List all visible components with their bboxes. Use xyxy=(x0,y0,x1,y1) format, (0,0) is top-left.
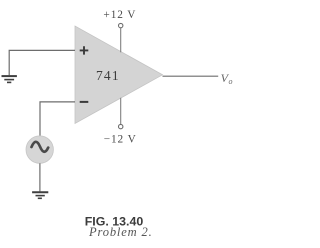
svg-text:741: 741 xyxy=(96,68,120,83)
svg-text:+12 V: +12 V xyxy=(103,9,136,21)
wire: output from apex to Vo node xyxy=(163,75,219,77)
op-amp noninverting input pin label + xyxy=(80,46,89,54)
wire: source to bottom ground xyxy=(39,163,41,191)
wire: op-amp bottom edge to −12 V terminal xyxy=(120,98,122,124)
sine symbol inside source xyxy=(32,142,49,152)
wire: noninverting input to left ground xyxy=(9,50,75,75)
svg-text:−12 V: −12 V xyxy=(104,133,137,145)
op-amp inverting input pin label − xyxy=(80,101,89,103)
ground (source) xyxy=(32,192,48,198)
ground (noninverting input) xyxy=(2,76,17,82)
+12 V supply terminal xyxy=(119,23,123,27)
wire: +12 V terminal to op-amp top edge xyxy=(120,28,122,52)
op-amp U1 (741 triangle body) xyxy=(75,26,163,124)
svg-text:Vo: Vo xyxy=(221,71,233,86)
−12 V supply terminal xyxy=(119,124,123,128)
source V1 (sinusoidal source circle) xyxy=(26,136,53,163)
wire: inverting input to sine source xyxy=(40,102,75,136)
svg-text:Problem 2.: Problem 2. xyxy=(88,225,153,239)
